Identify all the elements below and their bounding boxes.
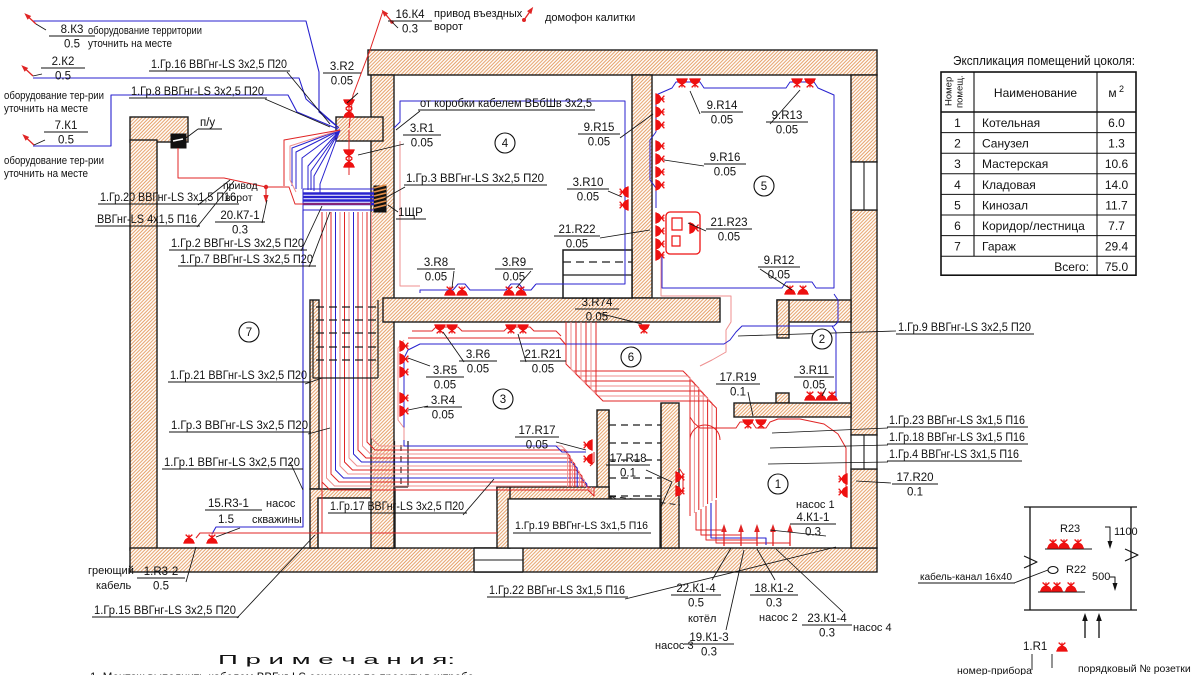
leader 1.Gr.23 xyxy=(772,428,888,433)
socket 17.R20 pair xyxy=(839,473,847,484)
svg-text:9.R13: 9.R13 xyxy=(772,110,803,122)
node room 2 number xyxy=(812,329,832,349)
svg-text:3.R74: 3.R74 xyxy=(582,297,613,309)
leader 1.Gr.3 room4 xyxy=(380,187,405,201)
svg-text:греющий: греющий xyxy=(88,565,134,577)
wall bottom xyxy=(130,548,877,572)
wire 16.K4 red from top xyxy=(349,11,383,128)
svg-text:0.5: 0.5 xyxy=(688,598,704,610)
svg-text:0.05: 0.05 xyxy=(432,410,454,422)
svg-text:1.Гр.20 ВВГнг-LS 3х1,5 П16: 1.Гр.20 ВВГнг-LS 3х1,5 П16 xyxy=(100,192,236,204)
node room 3 number xyxy=(493,389,513,409)
svg-text:10.6: 10.6 xyxy=(1105,157,1129,171)
svg-text:1.Гр.18 ВВГнг-LS 3х1,5 П16: 1.Гр.18 ВВГнг-LS 3х1,5 П16 xyxy=(889,432,1025,444)
svg-text:0.05: 0.05 xyxy=(434,380,456,392)
wire 1.Gr.1 blue to pump xyxy=(212,210,303,534)
svg-text:уточнить на месте: уточнить на месте xyxy=(4,103,88,115)
svg-text:2: 2 xyxy=(819,334,825,346)
leader 1.Gr.20 xyxy=(198,180,230,205)
svg-text:насос 1: насос 1 xyxy=(796,499,835,511)
svg-text:0.3: 0.3 xyxy=(701,647,717,659)
leader leader to 17.R18 from box xyxy=(649,482,672,534)
leader 9.R15 xyxy=(620,114,653,138)
svg-text:Мастерская: Мастерская xyxy=(982,157,1048,171)
svg-text:1: 1 xyxy=(954,116,961,130)
svg-text:1.Гр.9 ВВГнг-LS 3х2,5 П20: 1.Гр.9 ВВГнг-LS 3х2,5 П20 xyxy=(898,322,1031,334)
leader 1.Gr.21 xyxy=(305,378,322,384)
socket 3.R2 pair xyxy=(343,100,354,108)
wire red 17.R20 drop xyxy=(845,472,847,494)
leader 9.R13 xyxy=(770,90,800,124)
wire room3 red top xyxy=(408,322,566,345)
svg-text:1: 1 xyxy=(775,479,781,491)
node room 4 number xyxy=(495,133,515,153)
socket 3.R1 pair xyxy=(343,150,354,158)
svg-text:0.3: 0.3 xyxy=(819,628,835,640)
svg-text:0.3: 0.3 xyxy=(402,24,418,36)
svg-text:3.R1: 3.R1 xyxy=(410,123,434,135)
wire feeder 7.K1 blue xyxy=(33,95,338,146)
socket 17.R18 pair xyxy=(676,471,684,482)
svg-text:16.К4: 16.К4 xyxy=(395,9,425,21)
svg-text:0.05: 0.05 xyxy=(411,138,433,150)
leader 3.R4 xyxy=(408,406,428,410)
svg-text:9.R12: 9.R12 xyxy=(764,255,795,267)
svg-text:Кладовая: Кладовая xyxy=(982,178,1036,192)
arrow 16.K4 xyxy=(380,8,394,24)
pump arrows room 1 xyxy=(721,524,727,546)
leader 4.K1-1 xyxy=(770,530,826,536)
svg-text:7.7: 7.7 xyxy=(1108,219,1125,233)
svg-text:1.Гр.23 ВВГнг-LS 3х1,5 П16: 1.Гр.23 ВВГнг-LS 3х1,5 П16 xyxy=(889,415,1025,427)
leader 8.K3 xyxy=(36,24,46,30)
svg-text:1.5: 1.5 xyxy=(218,514,234,526)
leader 1.Gr.2 xyxy=(301,206,322,251)
svg-text:насос 4: насос 4 xyxy=(853,622,892,634)
svg-text:оборудование тер-рии: оборудование тер-рии xyxy=(4,155,104,167)
socket 9.R16 cluster xyxy=(656,140,664,151)
svg-text:1.Гр.16 ВВГнг-LS 3х2,5 П20: 1.Гр.16 ВВГнг-LS 3х2,5 П20 xyxy=(151,59,287,71)
wire room3 red left drop xyxy=(398,340,404,440)
wall right middle xyxy=(851,210,877,435)
svg-text:ВВГнг-LS 4х1,5 П16: ВВГнг-LS 4х1,5 П16 xyxy=(97,214,197,226)
stair treads xyxy=(609,424,661,426)
svg-text:0.05: 0.05 xyxy=(566,239,588,251)
wire bundle C garage riser turning east xyxy=(322,212,560,490)
leader 1.Gr.22 xyxy=(625,547,836,599)
svg-text:0.3: 0.3 xyxy=(805,527,821,539)
wire room5 blue perimeter xyxy=(656,82,834,288)
svg-text:насос: насос xyxy=(266,498,296,510)
socket 15.R3-1 pumps garage xyxy=(183,535,194,543)
svg-text:R23: R23 xyxy=(1060,523,1080,535)
wall storage top band xyxy=(497,487,609,499)
gate drive tap arrow xyxy=(264,185,268,189)
svg-text:м: м xyxy=(1108,86,1116,100)
svg-text:3.R10: 3.R10 xyxy=(573,177,604,189)
wire p/u red with gate drive tap xyxy=(178,148,371,204)
socket 17.R17 pair xyxy=(584,439,592,450)
svg-text:0.05: 0.05 xyxy=(776,125,798,137)
leader 3.R8 xyxy=(452,271,454,288)
svg-text:Номер: Номер xyxy=(944,77,955,106)
leader 1.R3-2 xyxy=(186,547,196,582)
leader 3.R11 xyxy=(822,388,826,396)
svg-text:7: 7 xyxy=(246,327,252,339)
svg-text:котёл: котёл xyxy=(688,613,716,625)
svg-text:1.Гр.3 ВВГнг-LS 3х2,5 П20: 1.Гр.3 ВВГнг-LS 3х2,5 П20 xyxy=(406,173,544,185)
svg-text:20.К7-1: 20.К7-1 xyxy=(220,210,259,222)
svg-text:6.0: 6.0 xyxy=(1108,116,1125,130)
svg-text:8.К3: 8.К3 xyxy=(61,24,84,36)
leader 1.Gr.4 xyxy=(768,462,888,464)
window room 1 xyxy=(851,435,877,469)
arrow 7.K1 xyxy=(21,132,36,147)
opening in bottom wall xyxy=(474,548,523,572)
socket 9.R12 pair xyxy=(784,286,795,294)
socket 3.R9 pair xyxy=(503,287,514,295)
wall room2 left xyxy=(777,300,789,338)
leader 17.R18 xyxy=(646,470,672,482)
svg-text:9.R14: 9.R14 xyxy=(707,100,738,112)
leader p/u xyxy=(186,129,198,138)
leader 9.R14 xyxy=(690,91,700,114)
junction block on left wall xyxy=(336,117,383,141)
wall below room2 / corridor ledge xyxy=(734,403,851,417)
label box 1.Gr.19 xyxy=(508,499,660,548)
svg-text:Котельная: Котельная xyxy=(982,116,1040,130)
wall storage left column xyxy=(497,487,510,548)
svg-text:1.Гр.2 ВВГнг-LS 3х2,5 П20: 1.Гр.2 ВВГнг-LS 3х2,5 П20 xyxy=(171,238,304,250)
svg-text:привод: привод xyxy=(223,180,258,192)
svg-text:1.R3-2: 1.R3-2 xyxy=(144,566,179,578)
svg-text:0.05: 0.05 xyxy=(577,192,599,204)
svg-text:3: 3 xyxy=(500,394,506,406)
svg-text:21.R21: 21.R21 xyxy=(524,349,561,361)
svg-text:домофон калитки: домофон калитки xyxy=(545,12,635,24)
wall room2 top xyxy=(777,300,851,322)
svg-text:кабель: кабель xyxy=(96,580,132,592)
svg-text:П р и м е ч а н и я:: П р и м е ч а н и я: xyxy=(218,652,455,667)
wire 21.R23 red drop to door xyxy=(661,255,731,366)
svg-text:4.К1-1: 4.К1-1 xyxy=(797,512,830,524)
svg-text:0.05: 0.05 xyxy=(768,270,790,282)
leader 22.K1-4 xyxy=(712,548,731,580)
leader 1.Gr.17 xyxy=(463,479,494,515)
leader 3.R10 xyxy=(608,191,622,197)
svg-text:скважины: скважины xyxy=(252,514,302,526)
svg-text:2: 2 xyxy=(954,137,961,151)
svg-text:0.5: 0.5 xyxy=(153,581,169,593)
wire 1.Gr.17 red in garage xyxy=(196,533,497,538)
leader VVG 4x1.5 xyxy=(197,181,234,227)
table explication xyxy=(941,72,1136,275)
node room 7 number xyxy=(239,322,259,342)
leader 3.R5 xyxy=(408,358,430,366)
wire feeder 2.K2 blue xyxy=(33,78,338,127)
svg-text:п/у: п/у xyxy=(200,117,215,129)
wall room2 small pier xyxy=(776,393,789,403)
svg-text:0.05: 0.05 xyxy=(588,137,610,149)
wire panel bundle thick blue xyxy=(303,192,374,194)
svg-text:0.3: 0.3 xyxy=(766,598,782,610)
socket 17.R19 pair xyxy=(742,420,753,428)
socket 9.R14 pair xyxy=(676,79,687,87)
detail break marks xyxy=(1024,556,1037,568)
svg-text:1.Гр.22 ВВГнг-LS 3х1,5 П16: 1.Гр.22 ВВГнг-LS 3х1,5 П16 xyxy=(489,585,625,597)
arrow 8.K3 xyxy=(23,11,38,26)
svg-text:0.05: 0.05 xyxy=(714,167,736,179)
wall horizontal below rooms 4-5 xyxy=(383,298,720,322)
svg-text:5: 5 xyxy=(954,198,961,212)
svg-text:17.R17: 17.R17 xyxy=(518,425,555,437)
wall garage right strip xyxy=(310,300,319,489)
svg-text:9.R15: 9.R15 xyxy=(584,122,615,134)
svg-text:оборудование территории: оборудование территории xyxy=(88,25,202,37)
svg-text:Всего:: Всего: xyxy=(1054,260,1089,274)
svg-text:19.К1-3: 19.К1-3 xyxy=(689,632,728,644)
wall stairs right xyxy=(661,403,679,548)
socket 3.R4 cluster xyxy=(400,392,408,403)
svg-text:ворот: ворот xyxy=(434,21,463,33)
svg-text:0.3: 0.3 xyxy=(232,225,248,237)
svg-text:0.05: 0.05 xyxy=(331,76,353,88)
leader 1.Gr.18 xyxy=(770,445,888,448)
wire blue room2 xyxy=(789,326,836,400)
svg-text:1100: 1100 xyxy=(1114,526,1138,538)
wire blue corridor 1.Gr.9 xyxy=(404,294,838,452)
wire room4 red left xyxy=(400,141,420,286)
wire room4 blue perimeter xyxy=(394,101,625,284)
leader 18.K1-2 xyxy=(757,549,775,580)
wire room3 red sockets row xyxy=(412,327,561,336)
svg-text:1.Гр.3 ВВГнг-LS 3х2,5 П20: 1.Гр.3 ВВГнг-LS 3х2,5 П20 xyxy=(171,420,308,432)
leader 3.R74 xyxy=(598,313,642,324)
svg-text:6: 6 xyxy=(628,352,634,364)
wire red drop through garage door xyxy=(321,446,323,533)
svg-text:Наименование: Наименование xyxy=(994,86,1078,100)
svg-text:1.Гр.8 ВВГнг-LS 3х2,5 П20: 1.Гр.8 ВВГнг-LS 3х2,5 П20 xyxy=(131,86,264,98)
svg-text:Санузел: Санузел xyxy=(982,137,1029,151)
svg-text:0.05: 0.05 xyxy=(526,440,548,452)
wall main top xyxy=(368,50,877,75)
leader 9.R16 xyxy=(664,160,704,166)
detail bottom arrows xyxy=(1082,613,1088,638)
wire red 17.R18 feeds xyxy=(959,0,961,1)
svg-text:75.0: 75.0 xyxy=(1105,260,1129,274)
svg-text:R22: R22 xyxy=(1066,564,1086,576)
leader 1.Gr.15 xyxy=(237,535,315,618)
svg-text:500: 500 xyxy=(1092,571,1110,583)
svg-text:23.К1-4: 23.К1-4 xyxy=(807,613,847,625)
window room 5 xyxy=(851,162,877,210)
svg-text:3.R11: 3.R11 xyxy=(799,365,829,377)
leader 3.R2 xyxy=(347,93,358,103)
leader 7.K1 xyxy=(34,140,45,145)
leader 23.K1-4 xyxy=(776,549,843,612)
svg-text:0.5: 0.5 xyxy=(58,135,74,147)
svg-text:0.05: 0.05 xyxy=(586,312,608,324)
wire fan red strands xyxy=(290,130,340,192)
svg-text:1.Гр.4 ВВГнг-LS 3х1,5 П16: 1.Гр.4 ВВГнг-LS 3х1,5 П16 xyxy=(889,449,1019,461)
svg-text:7: 7 xyxy=(954,240,961,254)
svg-text:насос 3: насос 3 xyxy=(655,640,694,652)
svg-text:1.R1: 1.R1 xyxy=(1023,641,1047,653)
leader kabel-kanal xyxy=(1014,570,1048,583)
wire room5 blue left wall bumps xyxy=(650,132,656,208)
svg-text:21.R23: 21.R23 xyxy=(710,217,747,229)
leader 16.K4 xyxy=(392,22,398,28)
svg-text:3.R6: 3.R6 xyxy=(466,349,490,361)
svg-text:22.К1-4: 22.К1-4 xyxy=(676,583,716,595)
wall stairs left xyxy=(597,410,609,548)
arrow domofon xyxy=(522,5,535,21)
leader 17.R19 xyxy=(748,392,753,416)
door jambs in main left wall to storage xyxy=(394,441,396,487)
leader 1.Gr.7 xyxy=(309,212,330,267)
leader ot korobki xyxy=(396,111,420,130)
wall right upper xyxy=(851,75,877,162)
wall chunk with door opening below strip xyxy=(310,489,395,548)
svg-text:0.05: 0.05 xyxy=(711,115,733,127)
svg-text:кабель-канал 16х40: кабель-канал 16х40 xyxy=(920,571,1012,583)
wire red 17.R17 feeds xyxy=(590,452,594,466)
socket 3.R6 pair xyxy=(434,325,445,333)
svg-text:оборудование тер-рии: оборудование тер-рии xyxy=(4,90,104,102)
svg-text:18.К1-2: 18.К1-2 xyxy=(754,583,793,595)
svg-text:1.Гр.15 ВВГнг-LS 3х2,5 П20: 1.Гр.15 ВВГнг-LS 3х2,5 П20 xyxy=(94,605,236,617)
leader 17.R20 xyxy=(856,481,891,483)
node room 6 number xyxy=(621,347,641,367)
svg-text:Кинозал: Кинозал xyxy=(982,198,1028,212)
svg-text:помещ.: помещ. xyxy=(955,75,966,108)
svg-text:насос 2: насос 2 xyxy=(759,612,798,624)
wall garage top-left corner block xyxy=(130,117,188,142)
svg-text:7.К1: 7.К1 xyxy=(55,120,78,132)
garage ramp dashed ladder xyxy=(316,306,378,308)
svg-text:от коробки кабелем ВБбШв 3х2,5: от коробки кабелем ВБбШв 3х2,5 xyxy=(420,98,592,110)
wire 4.K1-1 blue pump 1 xyxy=(711,503,766,545)
svg-text:уточнить на месте: уточнить на месте xyxy=(88,38,172,50)
leader 1SchR xyxy=(388,205,398,212)
panel 1ShchR xyxy=(374,186,386,212)
svg-text:0.05: 0.05 xyxy=(803,380,825,392)
wire pump feeds along floor xyxy=(696,512,724,545)
leader 1.Gr.9 xyxy=(738,331,896,336)
svg-text:17.R18: 17.R18 xyxy=(609,453,646,465)
svg-text:0.1: 0.1 xyxy=(620,468,636,480)
socket 9.R13 pair xyxy=(791,79,802,87)
leader 1.Gr.3 left xyxy=(308,428,330,434)
socket 3.R8 pair xyxy=(444,287,455,295)
svg-text:1.Гр.21 ВВГнг-LS 3х2,5 П20: 1.Гр.21 ВВГнг-LS 3х2,5 П20 xyxy=(170,370,307,382)
svg-text:3.R8: 3.R8 xyxy=(424,257,448,269)
leader 1.Gr.8 xyxy=(265,99,330,127)
svg-text:2: 2 xyxy=(1119,84,1124,94)
svg-text:Экспликация помещений цоколя:: Экспликация помещений цоколя: xyxy=(953,53,1135,68)
svg-text:5: 5 xyxy=(761,181,767,193)
svg-text:0.05: 0.05 xyxy=(467,364,489,376)
socket 3.R5 cluster xyxy=(400,340,408,351)
svg-text:номер-прибора: номер-прибора xyxy=(957,665,1032,675)
wall divider rooms 4-5 xyxy=(632,75,652,298)
wire feeder 8.K3 blue xyxy=(33,21,339,128)
wire red corridor to 17.R19 and 17.R20 xyxy=(690,417,846,472)
leader 3.R9 xyxy=(516,271,531,288)
leader 3.R6 xyxy=(443,332,464,362)
socket 9.R15 cluster xyxy=(656,93,664,104)
svg-text:1.Гр.7 ВВГнг-LS 3х2,5 П20: 1.Гр.7 ВВГнг-LS 3х2,5 П20 xyxy=(180,254,313,266)
svg-text:21.R22: 21.R22 xyxy=(558,224,595,236)
wire red door arc room1 xyxy=(690,425,720,440)
leader 19.K1-3 xyxy=(726,550,744,630)
svg-text:0.05: 0.05 xyxy=(425,272,447,284)
leader 1.Gr.1 xyxy=(290,462,303,490)
svg-text:0.5: 0.5 xyxy=(64,39,80,51)
svg-text:3.R4: 3.R4 xyxy=(431,395,456,407)
svg-text:6: 6 xyxy=(954,219,961,233)
svg-text:3: 3 xyxy=(954,157,961,171)
node room 5 number xyxy=(754,176,774,196)
leader 1.Gr.16 xyxy=(287,72,330,124)
wire fan from junction to panel bundle blue xyxy=(296,130,340,189)
svg-text:11.7: 11.7 xyxy=(1105,198,1128,212)
socket 21.R21 pair xyxy=(505,325,516,333)
svg-text:1.Гр.1 ВВГнг-LS 3х2,5 П20: 1.Гр.1 ВВГнг-LS 3х2,5 П20 xyxy=(164,457,300,469)
svg-text:0.05: 0.05 xyxy=(718,232,740,244)
svg-text:Коридор/лестница: Коридор/лестница xyxy=(982,219,1085,233)
leader 3.R1 xyxy=(358,144,404,155)
wall right lower xyxy=(851,469,877,548)
svg-text:4: 4 xyxy=(954,178,961,192)
socket 21.R22/21.R23 group xyxy=(656,212,664,223)
leader 17.R17 xyxy=(556,442,586,450)
leader 21.R21 xyxy=(518,334,526,362)
svg-text:0.05: 0.05 xyxy=(503,272,525,284)
svg-text:3.R9: 3.R9 xyxy=(502,257,526,269)
socket 3.R11 triple xyxy=(804,392,815,400)
svg-text:0.1: 0.1 xyxy=(907,487,923,499)
leader 15.R3-1 xyxy=(216,528,240,537)
node room 1 number xyxy=(768,474,788,494)
door jamb lines xyxy=(317,498,319,548)
svg-text:14.0: 14.0 xyxy=(1105,178,1129,192)
leader 2.K2 xyxy=(33,74,42,76)
svg-text:4: 4 xyxy=(502,138,509,150)
leader 21.R23 xyxy=(688,223,706,231)
svg-text:0.1: 0.1 xyxy=(730,387,746,399)
socket 3.R74 xyxy=(638,325,649,333)
svg-text:уточнить на месте: уточнить на месте xyxy=(4,168,88,180)
wall garage left xyxy=(130,140,157,550)
svg-text:9.R16: 9.R16 xyxy=(710,152,741,164)
svg-text:0.5: 0.5 xyxy=(55,71,71,83)
svg-text:29.4: 29.4 xyxy=(1105,240,1129,254)
leader 21.R22 xyxy=(600,230,650,238)
detail wall section lines xyxy=(1024,506,1137,508)
svg-text:2.К2: 2.К2 xyxy=(52,56,75,68)
vent shaft box xyxy=(563,250,632,298)
wire bundle A riser from wall to room1 pumps xyxy=(566,322,690,516)
svg-text:0.05: 0.05 xyxy=(532,364,554,376)
svg-text:3.R5: 3.R5 xyxy=(433,365,457,377)
svg-text:3.R2: 3.R2 xyxy=(330,61,354,73)
control box p/u xyxy=(171,134,186,148)
arrow 2.K2 xyxy=(20,63,35,78)
svg-text:1.3: 1.3 xyxy=(1108,137,1125,151)
svg-text:17.R20: 17.R20 xyxy=(896,472,933,484)
wire bundle C east end turning down xyxy=(560,487,594,496)
